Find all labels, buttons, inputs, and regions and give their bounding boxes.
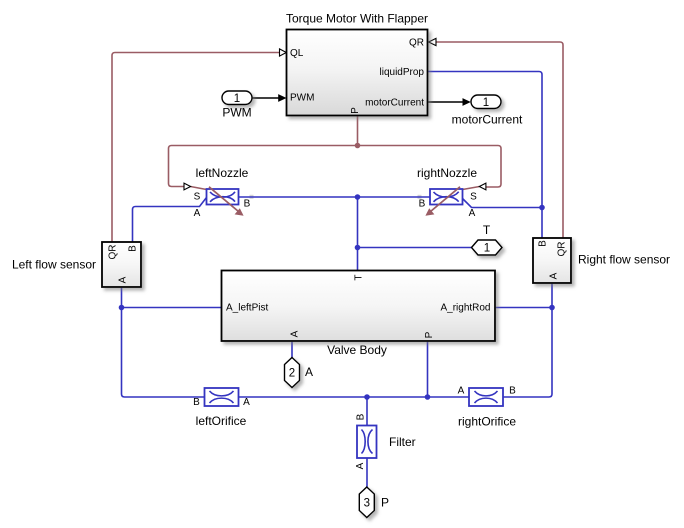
wire Torque Motor QR to Right flow sensor QR	[436, 42, 563, 238]
block Valve Body	[222, 271, 496, 358]
svg-text:P: P	[350, 107, 361, 114]
svg-text:liquidProp: liquidProp	[380, 67, 425, 78]
svg-text:A: A	[355, 462, 366, 469]
svg-text:PWM: PWM	[290, 93, 314, 104]
svg-text:1: 1	[234, 93, 240, 105]
svg-text:B: B	[509, 386, 516, 397]
svg-text:rightOrifice: rightOrifice	[458, 415, 516, 429]
wire Filter A to port P hexagon	[366, 458, 368, 487]
wire leftNozzle S stub	[191, 187, 207, 190]
wire T port hexagon to node	[358, 247, 472, 249]
svg-text:2: 2	[289, 368, 295, 380]
node junction T line top	[355, 194, 361, 200]
svg-text:A_rightRod: A_rightRod	[440, 303, 490, 314]
svg-text:A: A	[194, 208, 201, 219]
wire leftOrifice A to rightOrifice A	[239, 396, 470, 398]
anchor mark left	[250, 195, 254, 199]
wire Valve Body A down to port A hexagon	[291, 341, 293, 358]
component rightOrifice (fixed orifice)	[458, 386, 517, 429]
wire Left flow sensor B to leftNozzle A	[133, 198, 207, 243]
component Filter	[355, 413, 416, 469]
wire P-net horizontal run with branches to nozzle S ports	[169, 146, 502, 188]
wire rightNozzle S stub	[463, 187, 480, 190]
wire Torque Motor P down to P-net	[357, 116, 359, 146]
signal wire PWM to Torque Motor	[253, 97, 279, 99]
node junction right A_rightRod	[549, 305, 555, 311]
wire Left flow sensor A down to leftOrifice B	[122, 287, 205, 397]
svg-text:T: T	[354, 274, 365, 280]
svg-text:P: P	[381, 496, 389, 510]
svg-text:A: A	[243, 397, 250, 408]
svg-text:A: A	[549, 272, 560, 279]
svg-text:rightNozzle: rightNozzle	[417, 166, 477, 180]
svg-text:leftNozzle: leftNozzle	[196, 166, 249, 180]
wire leftNozzle B to rightNozzle B	[239, 196, 431, 198]
svg-text:P: P	[424, 331, 435, 338]
node junction P-net	[355, 143, 361, 149]
node junction Valve Body P tap	[425, 394, 431, 400]
svg-text:Filter: Filter	[389, 435, 416, 449]
signal wire Torque Motor motorCurrent to output oval	[428, 101, 463, 103]
svg-text:T: T	[483, 223, 491, 237]
block Left flow sensor	[12, 242, 141, 287]
svg-text:S: S	[194, 192, 201, 203]
svg-text:B: B	[419, 199, 426, 210]
svg-text:A: A	[469, 208, 476, 219]
wire Valve Body P down to node	[427, 341, 429, 397]
wire node to Valve Body A_rightRod	[495, 307, 552, 309]
node junction left A_leftPist	[119, 305, 125, 311]
svg-text:B: B	[538, 240, 549, 247]
input port A hexagon	[285, 358, 314, 388]
svg-text:1: 1	[483, 97, 489, 109]
svg-text:QL: QL	[290, 48, 304, 59]
svg-text:Left flow sensor: Left flow sensor	[12, 258, 96, 272]
svg-text:A_leftPist: A_leftPist	[226, 303, 268, 314]
node junction Filter tap	[364, 394, 370, 400]
svg-text:B: B	[128, 245, 139, 252]
svg-text:3: 3	[364, 498, 370, 510]
port triangle leftNozzle S	[184, 183, 191, 190]
svg-text:A: A	[305, 365, 313, 379]
input port PWM oval	[222, 91, 252, 120]
component leftOrifice (fixed orifice)	[193, 388, 250, 428]
port triangle rightNozzle S	[479, 183, 486, 190]
svg-text:motorCurrent: motorCurrent	[365, 98, 424, 109]
node junction rightNozzle A	[539, 205, 545, 211]
wire liquidProp to Right flow sensor B	[428, 72, 543, 239]
svg-text:motorCurrent: motorCurrent	[452, 113, 523, 127]
svg-text:A: A	[458, 386, 465, 397]
svg-text:QR: QR	[557, 242, 568, 257]
svg-text:QR: QR	[108, 245, 119, 260]
anchor mark right	[418, 195, 422, 199]
port triangle QL	[280, 49, 287, 56]
svg-text:PWM: PWM	[222, 106, 251, 120]
wire Torque Motor QL to Left flow sensor QR	[112, 53, 280, 243]
block U1 Torque Motor With Flapper	[286, 12, 428, 116]
svg-text:A: A	[118, 276, 129, 283]
block Right flow sensor	[533, 238, 670, 283]
component rightNozzle (variable orifice)	[417, 166, 477, 219]
svg-text:S: S	[470, 192, 477, 203]
svg-text:B: B	[193, 397, 200, 408]
wire node to Valve Body T	[357, 197, 359, 271]
wire rightOrifice B up to Right flow sensor A	[503, 283, 552, 397]
svg-text:Valve Body: Valve Body	[327, 343, 387, 357]
component leftNozzle (variable orifice)	[194, 166, 251, 219]
svg-text:QR: QR	[409, 38, 424, 49]
node junction T hexagon line	[355, 245, 361, 251]
wire rightNozzle A to node	[463, 199, 543, 208]
svg-text:Right flow sensor: Right flow sensor	[578, 253, 670, 267]
wire node to Valve Body A_leftPist	[122, 307, 222, 309]
svg-text:Torque Motor With Flapper: Torque Motor With Flapper	[286, 12, 428, 26]
output port motorCurrent oval	[452, 95, 523, 127]
svg-text:B: B	[356, 413, 367, 420]
svg-text:A: A	[290, 330, 301, 337]
svg-text:B: B	[244, 199, 251, 210]
input port P hexagon	[359, 487, 389, 518]
wire node down to Filter B	[366, 397, 368, 426]
svg-text:leftOrifice: leftOrifice	[196, 414, 247, 428]
input port T hexagon	[472, 223, 503, 255]
port triangle QR	[429, 38, 436, 45]
svg-text:1: 1	[484, 243, 490, 255]
